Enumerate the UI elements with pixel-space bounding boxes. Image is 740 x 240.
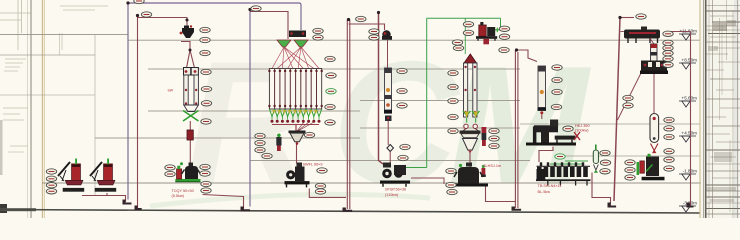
crumbler F: [640, 61, 668, 75]
surge capsule F: [650, 114, 659, 154]
maroon flow lines: [82, 12, 691, 210]
floor line left y55: [0, 54, 95, 56]
mixer E: [454, 163, 488, 187]
faint vertical x95: [94, 35, 96, 197]
tag ovals elevator C left: [448, 70, 458, 133]
purple pneumatic line x128: [128, 3, 301, 207]
tag ovals diamond D: [398, 144, 410, 160]
elevator B boot green X: [183, 111, 199, 122]
sampler beside mixer E: [481, 165, 486, 177]
fan D drop: [387, 40, 389, 68]
floor line y124 section EF: [520, 123, 700, 125]
tag ovals funnel E right: [489, 128, 499, 148]
tag ovals station E top: [452, 22, 509, 51]
intake unit 2: [90, 159, 116, 192]
tag ovals F mid pair: [623, 95, 633, 108]
weigh hopper E: [460, 131, 481, 153]
floor line y160: [250, 160, 530, 162]
tag ovals sifter F: [663, 31, 673, 67]
riser F sloped: [614, 18, 620, 202]
mill C discharge run: [309, 189, 346, 198]
mixer E discharge run: [486, 187, 516, 202]
svg-text:(100kw): (100kw): [575, 129, 589, 133]
purple line x247: [249, 10, 251, 207]
slide gate B: [187, 130, 193, 140]
riser F right x690: [690, 32, 692, 206]
tag ovals fan D: [369, 29, 379, 40]
crumbler F diagonal down: [618, 73, 642, 120]
floor line y156 section F: [558, 155, 700, 157]
sifter F: [624, 27, 660, 45]
green line over cooler 2: [550, 163, 582, 165]
pellet mill to cooler: [539, 147, 553, 163]
marker +8.50m: [679, 63, 696, 69]
riser E x516: [514, 50, 516, 208]
svg-text:BL.5kw: BL.5kw: [538, 190, 551, 194]
green line stub to mill D: [402, 167, 427, 169]
marker +5.60m: [679, 101, 696, 107]
elevation markers: [679, 29, 697, 212]
watermark RCM: [150, 26, 591, 221]
distributor funnels: [277, 40, 308, 47]
packing machine F: [637, 154, 665, 181]
boot feet blobs: [123, 200, 694, 212]
intake A discharge run: [82, 196, 126, 203]
marker -1.80m: [679, 174, 696, 180]
scale hopper C: [289, 131, 306, 145]
tag ovals filter column D: [397, 68, 407, 108]
left border verticals: [30, 0, 32, 218]
filter column D: [384, 68, 392, 145]
svg-text:SW: SW: [168, 89, 174, 93]
floor line y112: [148, 110, 360, 112]
elevator B legs: [184, 75, 199, 112]
green liquid lines: [402, 18, 588, 167]
feed to left bin funnel: [250, 12, 288, 40]
svg-text:SFSP.56×36: SFSP.56×36: [385, 188, 406, 192]
pellet mill E: [526, 120, 580, 146]
tag ovals mill C: [315, 168, 327, 194]
bottom-left corner mark: [0, 204, 7, 213]
green line top run: [427, 17, 501, 19]
cyclone B top: [180, 25, 194, 38]
left margin pencil lines: [0, 0, 31, 218]
svg-text:SWFL 66×9: SWFL 66×9: [303, 163, 323, 167]
slide diamond D: [387, 145, 394, 152]
elevator C legs: [464, 63, 478, 117]
V feed to elevator B: [187, 50, 191, 68]
elevator B drop to separator: [189, 121, 191, 130]
elevator C boot discharge tassels: [463, 111, 479, 131]
intake unit 1: [58, 159, 84, 192]
bin cone yellow centers: [272, 110, 318, 114]
faint scribbles top-left: [3, 6, 108, 152]
magnet tube C: [276, 134, 281, 152]
tag ovals risers top: [134, 0, 646, 22]
elevator B head boxes: [184, 68, 199, 76]
marker -3.90m: [679, 206, 696, 212]
node dots: [126, 1, 621, 51]
hammer mill C: [285, 163, 310, 188]
floor line y128 section D: [360, 127, 520, 129]
tag oval green cooler: [555, 154, 565, 159]
tower F: [651, 44, 658, 62]
svg-text:TB.SKLN4×11: TB.SKLN4×11: [538, 184, 562, 188]
red model labels: [168, 89, 590, 199]
riser C x348 (double): [346, 20, 348, 210]
hammer mill D: [380, 163, 410, 187]
green line branch x465: [464, 18, 466, 54]
magnet E: [482, 127, 487, 146]
marker +4.50m: [679, 136, 696, 142]
distributor fan pipes: [272, 47, 319, 69]
molasses capsule F: [593, 145, 598, 173]
floor line 0.00 global: [42, 182, 705, 184]
bin cones green: [269, 109, 321, 117]
floor line +8.50: [148, 68, 520, 70]
svg-text:HKJ.350: HKJ.350: [575, 124, 590, 128]
dust collector E: [476, 22, 500, 44]
svg-text:+5.60m: +5.60m: [682, 96, 698, 101]
right side elevation drawing: [700, 0, 740, 218]
svg-text:(110kw): (110kw): [385, 193, 399, 197]
tag ovals station B separator: [165, 164, 211, 193]
hopper C to mill: [296, 142, 298, 164]
left edge smudge: [0, 120, 3, 175]
tag ovals station C top: [313, 28, 323, 40]
tag ovals conditioner right: [551, 65, 573, 132]
floor line y138: [95, 137, 360, 139]
bin feeder dots and manifold: [271, 117, 321, 132]
conveyor head C top: [289, 31, 306, 38]
tag ovals station B column: [200, 27, 212, 124]
tag ovals station C left: [255, 133, 272, 158]
green line vertical x426.7: [426, 18, 428, 167]
conditioner to pellet mill: [541, 112, 543, 119]
conditioner E column: [538, 66, 547, 114]
floor line y100 section D: [360, 100, 520, 102]
mill D discharge: [411, 178, 444, 184]
svg-text:-1.80m: -1.80m: [683, 169, 697, 174]
green line over cooler: [565, 160, 588, 162]
floor lines: [0, 35, 705, 197]
separator B discharge run: [203, 195, 244, 209]
tag ovals mixer left: [446, 168, 457, 194]
funnel E to mixer: [469, 152, 471, 168]
capsule E drop: [592, 173, 611, 204]
tag ovals packer F left: [625, 160, 635, 180]
tag ovals station A: [46, 169, 56, 194]
green line drop to fan: [500, 18, 502, 30]
tag oval riser E: [499, 47, 509, 52]
floor line +11.60 left part: [0, 34, 128, 36]
floor line +11.60 main: [128, 39, 700, 41]
stub at cyclone B: [181, 42, 190, 51]
svg-text:TCQY 50×50: TCQY 50×50: [172, 189, 194, 193]
tag ovals capsule F right: [664, 117, 674, 171]
elevator C head: [464, 54, 477, 63]
svg-text:SLHSJ.1m: SLHSJ.1m: [483, 164, 501, 168]
svg-text:+4.50m: +4.50m: [682, 131, 698, 136]
svg-text:(5.5kw): (5.5kw): [172, 194, 185, 198]
tag ovals station C bins right: [325, 56, 336, 125]
ground border line: [0, 210, 700, 214]
cooler E: [536, 162, 591, 185]
sifter F to capsule: [653, 74, 655, 115]
floor line left y95: [0, 94, 95, 96]
aspiration fan D: [382, 30, 392, 40]
tag ovals capsule column right x603: [600, 150, 611, 174]
riser B x137: [137, 16, 139, 209]
bin battery: [268, 69, 323, 110]
tag oval hopper C: [304, 132, 314, 137]
riser D x378: [379, 13, 384, 165]
separator B: [175, 162, 200, 182]
marker +11.60m: [679, 34, 696, 40]
svg-text:+8.50m: +8.50m: [682, 58, 698, 63]
